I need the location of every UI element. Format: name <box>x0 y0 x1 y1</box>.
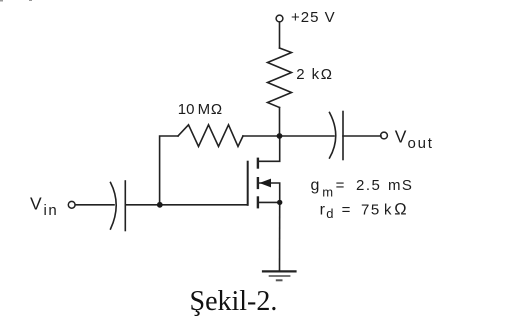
svg-text:r: r <box>320 202 326 219</box>
resistor RD 2k <box>268 48 292 108</box>
wire <box>125 204 247 206</box>
transistor Q1 body lead <box>259 183 280 202</box>
wire <box>75 204 114 206</box>
transistor Q1 MOSFET gate bar <box>247 162 249 205</box>
svg-text:=75kΩ: =75kΩ <box>342 201 407 219</box>
wire <box>280 135 335 137</box>
stray scan marks <box>0 0 32 2</box>
resistor Rf 10M <box>178 125 243 147</box>
svg-text:d: d <box>326 206 333 221</box>
transistor Q1 drain lead <box>259 136 280 161</box>
transistor Q1 channel bars <box>257 159 259 168</box>
svg-text:out: out <box>408 135 434 152</box>
wire <box>160 136 178 205</box>
svg-text:m: m <box>322 184 333 199</box>
node gate junction <box>157 202 163 208</box>
svg-text:Şekil-2.: Şekil-2. <box>190 286 278 317</box>
svg-text:+25 V: +25 V <box>291 9 336 26</box>
capacitor C1 input coupling <box>111 183 117 230</box>
terminal Vin <box>68 201 75 208</box>
svg-text:g: g <box>311 177 320 194</box>
ground <box>263 270 296 272</box>
capacitor C2 output coupling <box>330 113 336 159</box>
svg-text:=2.5mS: =2.5mS <box>336 177 414 194</box>
svg-text:10MΩ: 10MΩ <box>178 101 223 118</box>
terminal Vout <box>381 132 388 139</box>
wire <box>279 202 281 271</box>
wire <box>243 135 280 137</box>
wire <box>279 108 281 137</box>
svg-text:in: in <box>44 202 59 219</box>
node drain junction <box>277 133 283 139</box>
terminal +25V <box>276 15 283 22</box>
svg-text:V: V <box>395 126 407 146</box>
svg-text:V: V <box>30 194 42 214</box>
transistor Q1 source lead <box>259 201 280 203</box>
transistor Q1 body arrow <box>259 179 271 188</box>
node source junction <box>277 200 282 205</box>
wire <box>343 135 381 137</box>
svg-text:2kΩ: 2kΩ <box>296 66 332 83</box>
wire <box>279 22 281 48</box>
